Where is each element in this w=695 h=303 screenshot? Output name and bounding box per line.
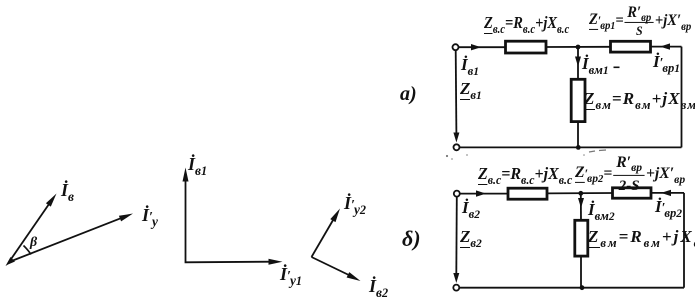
wire bottom (circuit b) — [459, 287, 684, 289]
axis I'_u1 horizontal (middle diagram) — [185, 259, 283, 265]
value label Z_vc = R_vc + jX_vc (circuit a) — [484, 14, 569, 31]
terminal circle top-left (circuit a) — [453, 44, 459, 50]
value label Z_vm = R_vm + jX_vm (circuit b) — [588, 228, 695, 245]
scan smudge left of circuit b top — [446, 154, 468, 160]
subfigure label b) — [402, 228, 421, 250]
wire right vertical (circuit a) — [681, 47, 683, 148]
value label Z_vc = R_vc + jX_vc (circuit b) — [478, 165, 572, 182]
wire top middle segment (circuit b) — [547, 192, 613, 194]
current arrow I_v1 (circuit a) — [471, 44, 481, 50]
terminal circle bottom-left (circuit a) — [454, 144, 460, 150]
value label Z'_vr1 = R'_vr/S + jX'_vr (circuit a) — [589, 5, 691, 37]
angle beta arc — [24, 246, 32, 255]
wire right vertical (circuit b) — [683, 193, 685, 288]
label current I_vm1 (circuit a) — [582, 55, 609, 72]
current arrow I_v2 (circuit b) — [476, 190, 486, 196]
junction node bottom (circuit b) — [580, 285, 585, 290]
wire top right segment (circuit a) — [651, 46, 682, 48]
label current I'_vr2 (circuit b) — [655, 198, 682, 215]
label I'_u (left diagram) — [142, 206, 158, 224]
terminal circle top-left (circuit b) — [454, 191, 460, 197]
label current I'_vr1 (circuit a) — [653, 53, 680, 70]
junction node bottom (circuit a) — [576, 145, 581, 150]
label I_v2 (right diagram) — [369, 277, 388, 295]
wire middle vertical upper with arrow I_vm1 (circuit a) — [575, 47, 581, 80]
phasor vector I_v2 (right diagram) — [312, 257, 361, 281]
label current I_vm2 (circuit b) — [588, 201, 615, 218]
label I'_u2 (right diagram) — [344, 194, 366, 212]
wire top right segment (circuit b) — [651, 192, 684, 194]
axis I_v1 vertical (middle diagram) — [183, 168, 189, 262]
resistor Z_vm (circuit a) — [571, 79, 585, 121]
scan smudge marks under circuit a bottom wire — [583, 150, 606, 156]
phasor vector I'_u (left diagram) — [9, 214, 133, 263]
wire left vertical with down arrow (circuit a) — [453, 50, 459, 142]
label current I_v1 (circuit a) — [461, 56, 479, 73]
label current I_v2 (circuit b) — [462, 199, 480, 216]
current arrow I'_vr2 pointing left (circuit b) — [661, 190, 671, 196]
wire middle vertical lower (circuit b) — [580, 256, 582, 288]
phasor origin ink blob (left diagram) — [6, 257, 16, 266]
wire top middle segment (circuit a) — [546, 46, 611, 48]
junction node top (circuit a) — [576, 45, 581, 50]
junction node top (circuit b) — [578, 191, 583, 196]
resistor Z_vr2 (circuit b) — [613, 188, 652, 198]
label I_v (left diagram) — [61, 181, 74, 199]
dash after I_vm1 label (circuit a) — [614, 66, 620, 68]
label beta — [30, 236, 37, 250]
subfigure label a) — [400, 84, 417, 104]
label impedance Z_v2 (circuit b) — [460, 228, 482, 245]
terminal circle bottom-left (circuit b) — [453, 285, 459, 291]
wire middle vertical upper with arrow I_vm2 (circuit b) — [578, 193, 584, 220]
label impedance Z_v1 (circuit a) — [460, 80, 482, 97]
resistor Z_vr1 (circuit a) — [611, 41, 651, 52]
wire left vertical with down arrow (circuit b) — [453, 197, 459, 283]
resistor Z_vc (circuit a) — [506, 41, 547, 53]
current arrow I'_vr1 pointing left (circuit a) — [660, 43, 670, 49]
value label Z'_vr2 = R'_vr/(2-S) + jX'_vr (circuit b) — [575, 155, 685, 193]
phasor vector I_v (left diagram) — [9, 194, 57, 263]
resistor Z_vc (circuit b) — [508, 188, 547, 199]
value label Z_vm = R_vm + jX_vm (circuit a) — [584, 90, 695, 107]
wire top left segment (circuit b) — [460, 193, 509, 195]
wire middle vertical lower (circuit a) — [577, 122, 579, 148]
label I_v1 (middle diagram) — [188, 155, 207, 173]
wire bottom (circuit a) — [460, 146, 682, 148]
resistor Z_vm (circuit b) — [575, 220, 588, 256]
phasor vector I'_u2 (right diagram) — [312, 209, 341, 258]
wire top left segment (circuit a) — [459, 46, 507, 48]
label I'_u1 (middle diagram) — [280, 265, 302, 283]
